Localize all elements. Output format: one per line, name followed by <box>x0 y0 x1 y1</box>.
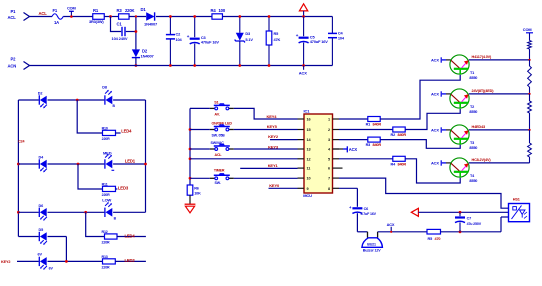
svg-text:13: 13 <box>307 148 311 152</box>
net label LED4 <box>116 129 133 134</box>
wire <box>380 140 460 149</box>
svg-text:ACX: ACX <box>431 58 439 63</box>
svg-text:ACX: ACX <box>387 222 395 227</box>
wire <box>378 231 427 233</box>
resistor R6 10K <box>187 185 201 196</box>
svg-text:D2: D2 <box>38 92 43 96</box>
svg-text:D8: D8 <box>102 86 107 90</box>
capacitor C3 470uF-16V <box>187 15 220 67</box>
svg-text:ACX: ACX <box>349 147 358 152</box>
node T1 tap <box>528 59 530 61</box>
svg-text:R2: R2 <box>391 133 396 137</box>
wire led left rail <box>17 100 19 237</box>
svg-text:220K: 220K <box>125 8 135 13</box>
svg-text:R1: R1 <box>366 123 371 127</box>
wire <box>48 211 105 214</box>
wire branch1 <box>77 100 102 133</box>
node T2 tap <box>528 93 530 95</box>
svg-text:R13: R13 <box>102 255 108 259</box>
wire <box>357 231 367 233</box>
resistor RN4 <box>528 130 532 163</box>
svg-text:SW/VAC: SW/VAC <box>211 141 225 145</box>
svg-text:IC1: IC1 <box>304 109 311 114</box>
svg-text:P2: P2 <box>11 57 17 62</box>
svg-text:10K: 10K <box>194 192 201 196</box>
led D4 <box>39 156 47 173</box>
wire <box>135 15 138 49</box>
led D6 <box>39 204 47 221</box>
svg-text:2: 2 <box>328 128 330 132</box>
svg-text:COM: COM <box>523 27 532 32</box>
resistor R1 3R3 <box>89 8 104 24</box>
wire <box>441 230 502 233</box>
svg-text:220R: 220R <box>102 137 111 141</box>
net label KEY1 stub <box>240 163 297 168</box>
svg-text:C7: C7 <box>467 217 472 221</box>
svg-text:LED2: LED2 <box>125 258 136 263</box>
svg-text:470uF 16V: 470uF 16V <box>201 40 219 45</box>
resistor R15 220R <box>102 255 116 270</box>
resistor RN1 <box>528 37 532 60</box>
led LOW <box>102 198 116 221</box>
svg-text:LED4: LED4 <box>121 129 132 134</box>
svg-text:Buzzer 12V: Buzzer 12V <box>363 248 381 252</box>
led D7 <box>38 253 54 271</box>
wire <box>380 75 460 119</box>
net label KEY2 left <box>1 260 10 264</box>
connector P1 ACL <box>8 9 30 20</box>
svg-text:LED1: LED1 <box>125 158 136 163</box>
svg-text:7: 7 <box>328 177 330 181</box>
wire ACN rail <box>30 65 333 67</box>
svg-text:KEY0: KEY0 <box>269 183 280 188</box>
resistor R11 470 <box>427 229 441 240</box>
resistor R10 840R <box>391 156 407 166</box>
op IC1 MCU body <box>303 109 332 199</box>
node T3 tap <box>528 129 530 131</box>
svg-text:8550: 8550 <box>469 179 477 183</box>
wire <box>105 16 119 18</box>
svg-text:KEY2: KEY2 <box>1 260 10 264</box>
resistor R14 220R <box>102 230 118 245</box>
svg-text:TIMER: TIMER <box>214 169 225 173</box>
svg-text:HC8.2V(4V): HC8.2V(4V) <box>472 158 492 162</box>
net label LED1 <box>125 158 136 163</box>
svg-text:ACL: ACL <box>8 15 17 20</box>
svg-text:R11: R11 <box>102 182 108 186</box>
svg-text:P1: P1 <box>11 9 17 14</box>
svg-text:8550: 8550 <box>469 110 477 114</box>
wire pin5 <box>339 158 393 160</box>
IR receiver HS1 <box>509 198 530 222</box>
svg-text:840R: 840R <box>398 163 407 167</box>
wire <box>234 108 298 119</box>
svg-text:AV.: AV. <box>214 112 219 116</box>
resistor R13 220R <box>102 182 116 196</box>
switch S4 timer <box>189 169 234 185</box>
diode D1 1N4007 <box>141 7 159 26</box>
svg-text:5: 5 <box>328 157 330 161</box>
svg-text:LOW: LOW <box>102 198 111 203</box>
svg-text:470: 470 <box>435 237 441 241</box>
capacitor C5 470uF-16V <box>296 17 328 67</box>
net label KEY3 <box>268 144 279 149</box>
svg-text:8: 8 <box>328 187 330 191</box>
wire rail to pin10 <box>189 157 298 160</box>
wire to IR pin3 <box>501 217 509 232</box>
wire <box>113 99 145 101</box>
svg-text:1N4007: 1N4007 <box>141 53 155 58</box>
wire <box>17 163 39 166</box>
resistor R3 220K <box>117 8 135 19</box>
svg-text:KEY1: KEY1 <box>268 163 279 168</box>
svg-text:T2: T2 <box>470 105 474 109</box>
svg-text:R10: R10 <box>102 126 108 130</box>
wire <box>48 260 103 263</box>
svg-text:D6: D6 <box>39 204 44 208</box>
zener D3 5.1V <box>235 15 254 67</box>
svg-text:100: 100 <box>219 8 226 13</box>
switch S2 on-off-led <box>189 121 234 137</box>
svg-text:ACX: ACX <box>299 70 307 75</box>
wire <box>63 16 93 18</box>
transistor T2 8550 <box>431 89 530 114</box>
svg-text:6: 6 <box>328 167 330 171</box>
wire <box>17 260 39 262</box>
net label KEY5 <box>267 124 278 129</box>
node A junction <box>109 15 112 18</box>
wire <box>18 236 38 238</box>
svg-text:LED4: LED4 <box>125 233 136 238</box>
svg-text:KEY5: KEY5 <box>267 124 278 129</box>
svg-text:840R: 840R <box>373 143 382 147</box>
svg-text:9: 9 <box>307 187 309 191</box>
svg-text:470uF 16V: 470uF 16V <box>310 39 328 44</box>
svg-text:47u 250V: 47u 250V <box>467 222 482 226</box>
wire <box>48 237 67 262</box>
net tie COM top <box>523 27 533 37</box>
svg-text:MCU: MCU <box>303 193 312 198</box>
net label LED2 <box>115 258 146 263</box>
svg-text:220R: 220R <box>102 193 111 197</box>
svg-text:6V: 6V <box>38 253 43 257</box>
svg-text:ACL: ACL <box>39 11 48 16</box>
wire pin3 <box>339 139 368 141</box>
net label ACX buzzer <box>387 222 395 233</box>
wire <box>234 148 298 150</box>
wire <box>405 109 460 130</box>
svg-text:8550: 8550 <box>469 76 477 80</box>
svg-text:ACX: ACX <box>431 161 439 166</box>
wire <box>48 163 105 166</box>
resistor RN2 <box>528 60 532 94</box>
wire <box>405 159 460 183</box>
svg-text:KEY2: KEY2 <box>268 134 279 139</box>
svg-text:C24: C24 <box>18 140 24 144</box>
svg-text:SW.: SW. <box>215 181 221 185</box>
svg-text:KEY4: KEY4 <box>267 114 278 119</box>
svg-text:ON/OFF LED: ON/OFF LED <box>212 121 233 125</box>
svg-text:1: 1 <box>328 118 330 122</box>
net label ACX <box>299 66 307 76</box>
svg-text:R6: R6 <box>194 186 199 190</box>
wire key rail <box>189 108 191 185</box>
svg-text:LED3: LED3 <box>118 185 129 190</box>
net label C24 <box>18 140 24 144</box>
svg-text:3: 3 <box>328 138 330 142</box>
wire pin1 <box>339 118 368 120</box>
svg-text:ACX: ACX <box>431 128 439 133</box>
net tie COM <box>67 5 76 17</box>
svg-text:R12: R12 <box>102 230 108 234</box>
net label ACL <box>39 11 48 16</box>
capacitor C2 104 <box>166 15 183 67</box>
led D2 <box>38 92 47 109</box>
svg-text:12: 12 <box>307 157 311 161</box>
svg-text:ACX: ACX <box>431 92 439 97</box>
connector P2 ACN <box>8 57 30 70</box>
svg-text:ACL: ACL <box>215 153 223 157</box>
net label KEY4 <box>267 114 278 119</box>
power VCC symbol <box>299 4 307 18</box>
led D8 <box>102 86 115 109</box>
switch S3 sw-vac <box>189 141 234 157</box>
svg-text:H4ED43: H4ED43 <box>472 125 485 129</box>
net label KEY2 stub <box>268 134 297 139</box>
svg-text:24V(8T)(4ED): 24V(8T)(4ED) <box>472 89 495 93</box>
svg-text:840R: 840R <box>398 133 407 137</box>
svg-text:15: 15 <box>307 128 311 132</box>
svg-text:D1: D1 <box>141 7 147 12</box>
wire pin7 to IR <box>339 178 509 208</box>
ground <box>185 195 196 213</box>
wire +V rail <box>223 16 333 18</box>
resistor R4 100 <box>211 8 226 19</box>
resistor RN3 <box>528 94 532 130</box>
svg-text:47K: 47K <box>274 37 281 42</box>
buzzer BU1 <box>362 232 383 253</box>
IC1 right pins 1-8 <box>328 118 342 191</box>
svg-text:T1: T1 <box>470 71 474 75</box>
svg-text:KEY3: KEY3 <box>268 144 279 149</box>
svg-text:R5: R5 <box>428 237 433 241</box>
capacitor C7 250V <box>455 212 482 232</box>
wire pin8 to C6 <box>339 188 357 207</box>
svg-text:H4117(4.0V): H4117(4.0V) <box>472 55 493 59</box>
wire led right rail <box>145 100 147 212</box>
wire <box>129 16 146 18</box>
svg-text:840R: 840R <box>373 123 382 127</box>
svg-text:1N4007: 1N4007 <box>144 21 158 26</box>
net label LED4b <box>117 233 146 238</box>
svg-text:C1: C1 <box>117 21 123 26</box>
svg-text:D5: D5 <box>39 228 44 232</box>
capacitor C1 104-240V <box>111 17 136 42</box>
led D5 <box>39 228 47 245</box>
svg-text:16: 16 <box>307 118 311 122</box>
wire <box>48 99 105 102</box>
svg-text:10: 10 <box>307 177 311 181</box>
svg-text:R4: R4 <box>211 8 217 13</box>
transistor T1 8550 <box>431 55 530 80</box>
resistor R5 47K <box>266 15 280 67</box>
svg-text:R3: R3 <box>117 8 123 13</box>
wire pin2 <box>339 129 393 131</box>
led MED <box>103 151 112 169</box>
wire <box>234 129 298 131</box>
transistor T4 8550 <box>431 158 530 183</box>
svg-text:104 240V: 104 240V <box>112 36 128 41</box>
svg-text:104: 104 <box>176 37 183 42</box>
resistor R8 840R <box>391 127 407 137</box>
svg-text:104: 104 <box>338 36 345 41</box>
wire branch2 <box>78 164 102 189</box>
svg-text:C6: C6 <box>364 207 369 211</box>
resistor R12 220R <box>102 126 116 140</box>
capacitor C4 104 <box>328 17 345 66</box>
wire <box>18 99 38 101</box>
svg-text:3R3(3W): 3R3(3W) <box>89 19 104 24</box>
power arrow left <box>411 208 418 216</box>
svg-text:S1: S1 <box>214 100 218 104</box>
svg-text:R1: R1 <box>93 8 99 13</box>
svg-text:8550: 8550 <box>469 146 477 150</box>
svg-text:BU21: BU21 <box>367 243 376 247</box>
wire branch3 <box>86 212 105 236</box>
net label KEY0 stub <box>269 183 298 189</box>
switch S1 row1 <box>190 100 234 116</box>
resistor R9 840R <box>366 137 382 147</box>
net label ACX pin4 <box>333 146 358 152</box>
wire <box>30 16 53 18</box>
svg-text:T3: T3 <box>470 141 474 145</box>
svg-text:4.7uF 16V: 4.7uF 16V <box>361 212 377 216</box>
wire +V rail <box>156 16 212 18</box>
IC1 left pins 14-8 <box>298 118 312 191</box>
wire <box>113 211 145 213</box>
svg-text:220R: 220R <box>102 265 111 269</box>
wire <box>17 211 39 214</box>
wire VCC to IR pin2 <box>418 211 508 214</box>
svg-text:11: 11 <box>307 167 311 171</box>
svg-text:ACN: ACN <box>8 64 17 69</box>
transistor T3 8550 <box>431 125 530 150</box>
svg-text:HS1: HS1 <box>513 198 520 202</box>
svg-text:5.1V: 5.1V <box>245 37 253 42</box>
capacitor C6 4.7uF <box>349 205 377 232</box>
wire <box>234 177 298 179</box>
net label LED3 <box>116 185 129 190</box>
diode D2 1N4007 <box>132 49 155 67</box>
svg-text:220R: 220R <box>102 241 111 245</box>
svg-text:R3: R3 <box>366 143 371 147</box>
wire <box>112 163 147 171</box>
resistor R7 840R <box>366 117 382 127</box>
svg-text:1A: 1A <box>54 20 59 25</box>
svg-text:SW. 05B: SW. 05B <box>212 134 226 138</box>
svg-text:COM: COM <box>67 5 76 10</box>
fuse F1 <box>52 8 63 25</box>
